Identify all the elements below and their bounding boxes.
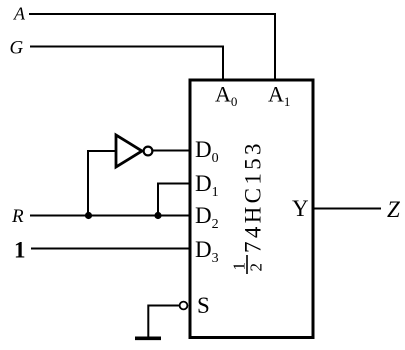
wire R to D2 <box>30 215 190 217</box>
svg-text:R: R <box>11 206 24 227</box>
svg-text:74HC153: 74HC153 <box>241 140 266 253</box>
svg-text:G: G <box>10 38 24 59</box>
svg-text:D2: D2 <box>195 203 219 232</box>
wire A to A1 pin <box>29 14 275 79</box>
wire S to ground <box>148 306 179 338</box>
wire G to A0 pin <box>30 47 223 80</box>
svg-text:A0: A0 <box>215 82 237 110</box>
IC label 1/2 74HC153 <box>230 140 266 274</box>
svg-text:Z: Z <box>387 197 400 222</box>
IC U1 74HC153 box <box>190 80 313 338</box>
inverter input branch wire <box>88 151 116 217</box>
svg-text:2: 2 <box>247 263 266 272</box>
svg-text:D1: D1 <box>195 171 219 200</box>
wire branch to D1 <box>158 184 190 216</box>
wire 1 to D3 <box>31 248 190 250</box>
svg-text:A: A <box>13 4 26 24</box>
wire inverter output to D0 <box>153 150 191 152</box>
wire Y to Z <box>313 208 381 210</box>
svg-text:D0: D0 <box>195 137 219 166</box>
ground <box>135 336 161 340</box>
inverter U2 output bubble <box>144 147 153 156</box>
svg-text:D3: D3 <box>195 237 219 266</box>
S input bubble <box>180 302 188 310</box>
junction dot on R line at D1 branch <box>154 212 161 219</box>
svg-text:A1: A1 <box>268 82 290 110</box>
junction dot on R line at inverter branch <box>85 212 92 219</box>
svg-text:S: S <box>197 293 210 318</box>
svg-text:1: 1 <box>14 237 26 262</box>
svg-text:Y: Y <box>292 196 309 221</box>
inverter U2 triangle <box>116 135 142 167</box>
